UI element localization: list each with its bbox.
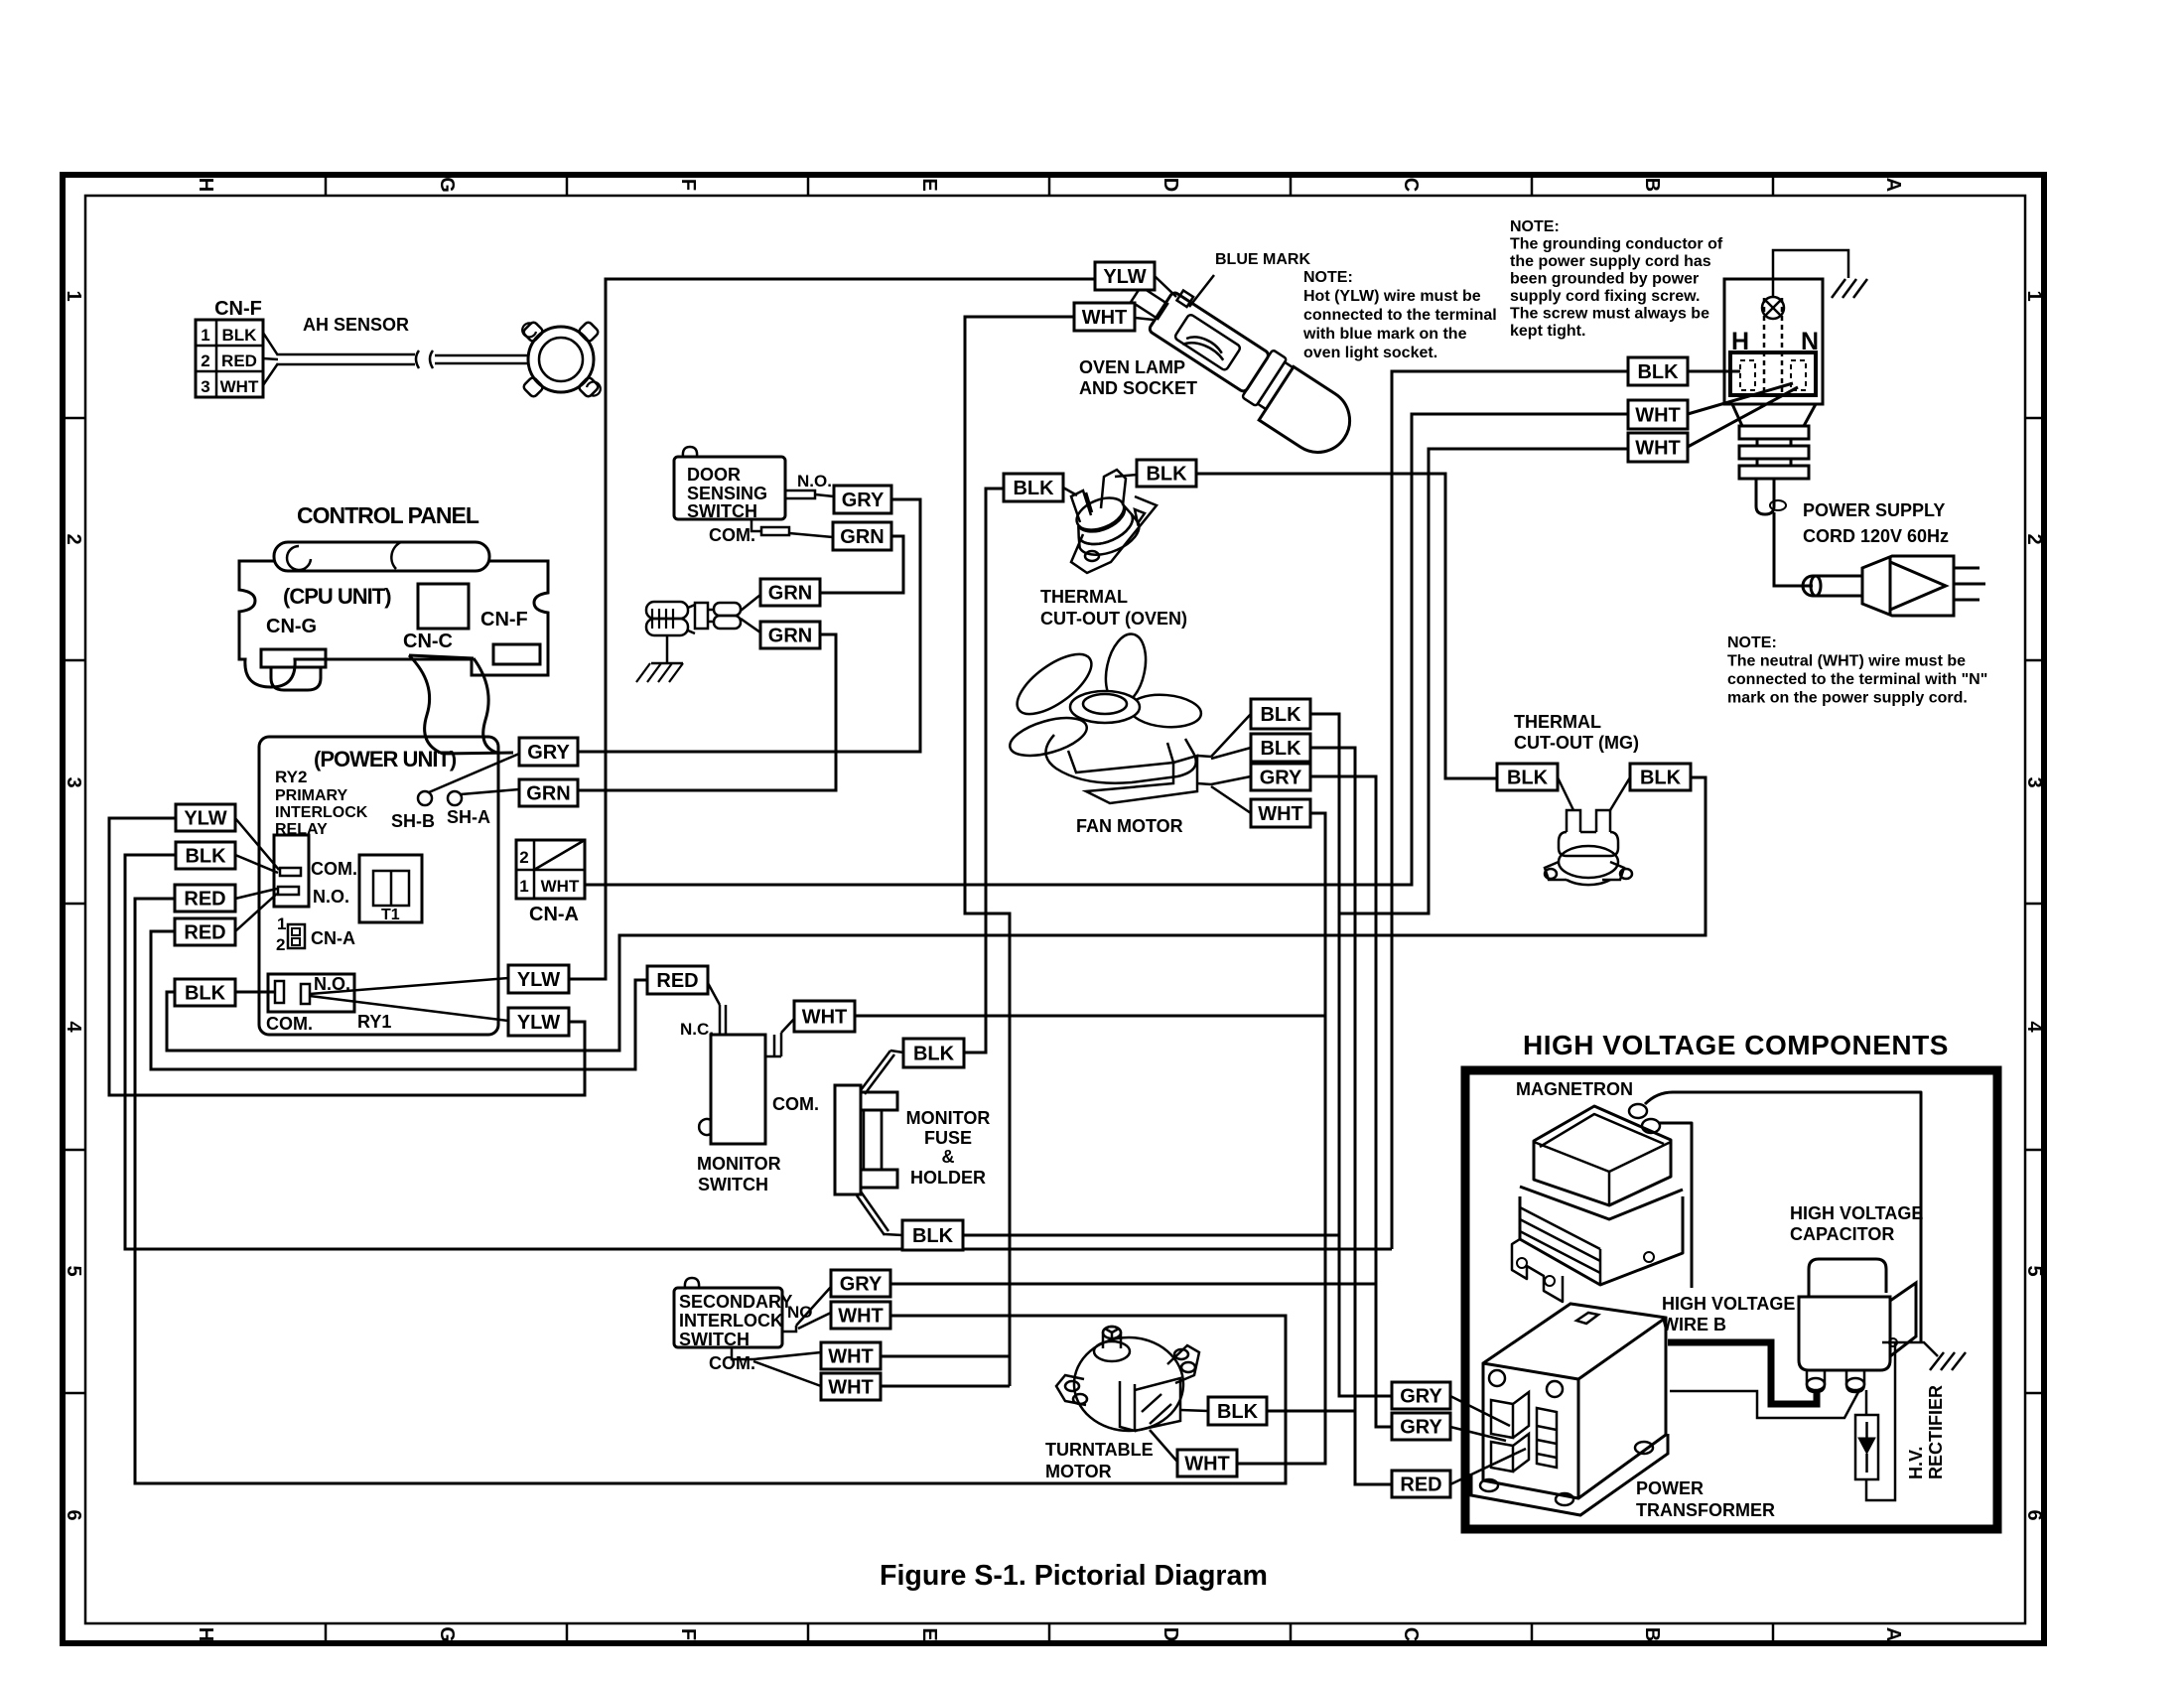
svg-text:BLK: BLK: [185, 846, 226, 868]
wire BLK3 left to thermal cutout MG BLK right: [167, 777, 1706, 1051]
secondary interlock NO stub: [782, 1326, 796, 1332]
connector CN-A (small, on power unit): [288, 924, 305, 948]
svg-text:CN-C: CN-C: [403, 631, 453, 652]
wire label box WHT: [1628, 433, 1688, 462]
wire label box YLW: [508, 965, 569, 993]
wires to BLK MG boxes: [1558, 777, 1573, 810]
wire SH-A to GRN: [461, 789, 519, 794]
svg-text:YLW: YLW: [184, 808, 226, 830]
ground (capacitor area): [1882, 1342, 1938, 1356]
transformer T1: [359, 855, 422, 922]
svg-text:BLK: BLK: [185, 983, 226, 1005]
svg-text:BLK: BLK: [1640, 768, 1682, 789]
wires rectifier: [1865, 1390, 1868, 1415]
wire label box BLK: [1628, 357, 1688, 385]
svg-text:CUT-OUT (OVEN): CUT-OUT (OVEN): [1040, 609, 1187, 629]
svg-text:H.V.: H.V.: [1906, 1447, 1926, 1479]
transformer mounting flange: [1471, 1434, 1668, 1515]
svg-text:FUSE: FUSE: [924, 1128, 972, 1148]
svg-text:GRY: GRY: [1400, 1386, 1442, 1408]
svg-text:CN-F: CN-F: [480, 609, 528, 631]
wire label box BLK: [903, 1039, 964, 1067]
svg-text:HIGH VOLTAGE COMPONENTS: HIGH VOLTAGE COMPONENTS: [1523, 1030, 1949, 1060]
door sensing switch body: [674, 457, 785, 519]
svg-text:YLW: YLW: [517, 1012, 560, 1034]
svg-text:The neutral (WHT) wire must be: The neutral (WHT) wire must be: [1727, 653, 1966, 670]
svg-text:2: 2: [519, 848, 528, 867]
svg-text:3: 3: [201, 377, 209, 396]
svg-text:1: 1: [2023, 290, 2045, 301]
wire label box RED: [647, 966, 708, 994]
svg-text:WHT: WHT: [541, 877, 580, 896]
svg-text:GRY: GRY: [1400, 1417, 1442, 1439]
svg-text:WHT: WHT: [1635, 438, 1681, 460]
svg-text:OVEN LAMP: OVEN LAMP: [1079, 357, 1185, 377]
svg-text:2: 2: [276, 935, 285, 954]
power supply cord terminal block: [1724, 279, 1823, 404]
svg-text:2: 2: [2023, 533, 2045, 544]
wire secondary GRY to fan GRY net: [890, 1283, 1376, 1286]
wire YLW: power unit YLW upper to oven lamp YLW box: [569, 279, 1095, 979]
svg-text:WHT: WHT: [1184, 1454, 1230, 1475]
svg-text:5: 5: [2023, 1265, 2045, 1276]
svg-text:INTERLOCK: INTERLOCK: [679, 1311, 783, 1331]
svg-text:DOOR: DOOR: [687, 465, 741, 485]
wire label box GRY: [1251, 764, 1310, 790]
svg-text:THERMAL: THERMAL: [1040, 587, 1128, 607]
svg-text:A: A: [1882, 178, 1904, 192]
wire label box WHT: [821, 1342, 881, 1369]
wire RED2 left to monitor switch RED: [151, 931, 647, 1069]
wire label box WHT: [794, 1001, 855, 1032]
svg-text:the power supply cord has: the power supply cord has: [1510, 253, 1711, 270]
wire fan BLK1 jog to power cord WHT lower: [1339, 449, 1628, 913]
high voltage capacitor: [1799, 1259, 1916, 1392]
svg-text:G: G: [436, 177, 458, 193]
svg-text:RED: RED: [184, 889, 225, 911]
svg-text:NO: NO: [787, 1303, 813, 1322]
wire RED left: long bottom run to secondary WHT NO: [135, 899, 1286, 1483]
border frame inner: [85, 196, 2025, 1623]
thermal cut-out (MG): [1545, 777, 1632, 885]
svg-text:SWITCH: SWITCH: [679, 1330, 750, 1349]
svg-text:RY1: RY1: [357, 1012, 391, 1032]
svg-text:WHT: WHT: [220, 377, 259, 396]
svg-text:D: D: [1160, 178, 1181, 192]
svg-text:AH SENSOR: AH SENSOR: [303, 315, 409, 335]
svg-text:POWER: POWER: [1636, 1478, 1704, 1498]
svg-text:HIGH VOLTAGE: HIGH VOLTAGE: [1662, 1294, 1795, 1314]
svg-text:H: H: [195, 178, 216, 192]
svg-text:BLK: BLK: [1260, 738, 1301, 760]
svg-text:COM.: COM.: [772, 1094, 819, 1114]
wire to ground (cord): [1773, 250, 1848, 297]
wire label box WHT: [1177, 1450, 1237, 1476]
wire label box BLK: [176, 842, 235, 869]
svg-text:2: 2: [63, 533, 84, 544]
svg-text:BLK: BLK: [222, 326, 258, 345]
ground lug terminals: [646, 602, 688, 619]
H.V. rectifier: [1855, 1415, 1878, 1479]
wire fan GRY down to transformer GRY2: [1310, 776, 1392, 1427]
svg-text:CN-F: CN-F: [214, 298, 262, 320]
wire door GRN to lug GRN box: [821, 536, 903, 593]
svg-text:CUT-OUT (MG): CUT-OUT (MG): [1514, 733, 1639, 753]
svg-text:RED: RED: [1400, 1474, 1441, 1496]
svg-text:WHT: WHT: [1258, 803, 1303, 825]
svg-text:N.O.: N.O.: [313, 887, 349, 907]
wire label box WHT: [1251, 799, 1310, 827]
magnetron: [1512, 1092, 1921, 1342]
wire fan BLK1 down to transformer GRY1: [1310, 714, 1392, 1396]
wire label box GRY: [834, 486, 891, 513]
svg-text:GRN: GRN: [526, 783, 570, 805]
connector CN-G: [261, 649, 326, 667]
wire label box WHT: [1628, 400, 1688, 429]
turntable motor: [1056, 1327, 1208, 1462]
svg-text:POWER SUPPLY: POWER SUPPLY: [1803, 500, 1945, 520]
wire H/N leads: [1688, 370, 1740, 373]
wire label box GRN: [760, 622, 820, 648]
indicator lamp on cord block: [1762, 297, 1784, 319]
svg-text:B: B: [1641, 1627, 1663, 1641]
svg-text:GRY: GRY: [527, 742, 570, 764]
svg-text:FAN MOTOR: FAN MOTOR: [1076, 816, 1183, 836]
wire label box YLW: [508, 1008, 569, 1036]
svg-text:C: C: [1400, 1627, 1422, 1641]
wire label box WHT: [1074, 303, 1135, 331]
high voltage wire B (thick): [1668, 1342, 1817, 1404]
svg-text:N.O.: N.O.: [797, 472, 832, 491]
wire cord to plug: [1774, 512, 1813, 586]
svg-text:NOTE:: NOTE:: [1510, 218, 1560, 235]
svg-text:COM.: COM.: [709, 525, 755, 545]
wire label box GRY: [519, 738, 578, 766]
wire capacitor case pin: [1889, 1338, 1897, 1346]
door switch N.O. stub: [785, 491, 815, 498]
svg-text:F: F: [677, 1628, 699, 1640]
ground symbol (left): [651, 635, 683, 663]
svg-text:RED: RED: [221, 351, 257, 370]
svg-text:F: F: [677, 179, 699, 191]
svg-text:YLW: YLW: [517, 969, 560, 991]
relay RY2 body: [274, 835, 309, 907]
wire label box YLW: [1095, 262, 1155, 290]
svg-text:BLK: BLK: [1260, 704, 1301, 726]
svg-text:(POWER UNIT): (POWER UNIT): [314, 747, 457, 772]
svg-text:RED: RED: [656, 970, 698, 992]
fan motor: [1006, 631, 1251, 813]
cord boot: [1756, 479, 1774, 514]
svg-text:TURNTABLE: TURNTABLE: [1045, 1440, 1154, 1460]
AH sensor ring: [528, 327, 594, 392]
svg-text:6: 6: [63, 1509, 84, 1520]
svg-text:SH-A: SH-A: [447, 807, 490, 827]
border frame outer: [63, 175, 2044, 1643]
svg-text:WHT: WHT: [828, 1377, 874, 1399]
svg-text:GRN: GRN: [768, 583, 812, 605]
svg-text:D: D: [1160, 1627, 1181, 1641]
svg-text:H: H: [195, 1627, 216, 1641]
svg-text:The grounding conductor of: The grounding conductor of: [1510, 236, 1723, 253]
svg-text:PRIMARY: PRIMARY: [275, 787, 348, 804]
wire label box WHT: [821, 1373, 881, 1400]
monitor fuse holder plate: [835, 1085, 861, 1194]
svg-text:BLK: BLK: [1217, 1401, 1259, 1423]
svg-text:E: E: [918, 178, 940, 191]
svg-text:RY2: RY2: [275, 768, 307, 786]
svg-text:NOTE:: NOTE:: [1303, 269, 1353, 286]
svg-text:WIRE B: WIRE B: [1662, 1315, 1726, 1334]
wire AH sensor cable: [278, 353, 415, 356]
svg-text:THERMAL: THERMAL: [1514, 712, 1601, 732]
svg-text:NOTE:: NOTE:: [1727, 634, 1777, 651]
svg-text:CN-A: CN-A: [529, 904, 579, 925]
svg-text:(CPU UNIT): (CPU UNIT): [283, 584, 391, 609]
svg-text:WHT: WHT: [1082, 307, 1128, 329]
ground symbol (cord): [1832, 279, 1845, 298]
secondary interlock COM stub: [732, 1347, 753, 1359]
svg-text:BLK: BLK: [1507, 768, 1549, 789]
svg-text:CN-G: CN-G: [266, 616, 317, 637]
svg-text:been grounded by power: been grounded by power: [1510, 271, 1699, 288]
svg-text:COM.: COM.: [266, 1014, 313, 1034]
SH-A terminal circle: [448, 791, 462, 805]
svg-text:RED: RED: [184, 922, 225, 944]
svg-text:COM.: COM.: [311, 859, 357, 879]
wire thermal-oven BLK right to thermal MG BLK left: [1196, 474, 1497, 778]
wire door GRY down to power unit GRY: [578, 499, 920, 752]
wire AH sensor cable fan-out: [263, 333, 278, 355]
wire YLW left loop: YLW box to power unit YLW lower: [109, 818, 585, 1095]
svg-text:C: C: [1400, 178, 1422, 192]
svg-text:GRY: GRY: [840, 1274, 883, 1296]
wire RY2 leads from left boxes: [235, 818, 279, 870]
wire WHT: secondary interlock COM WHT boxes to junction: [881, 1355, 1010, 1358]
fan motor body: [1045, 735, 1195, 783]
svg-text:with blue mark on the: with blue mark on the: [1302, 326, 1467, 343]
svg-text:TRANSFORMER: TRANSFORMER: [1636, 1500, 1775, 1520]
wires from GRY GRY RED boxes to transformer: [1450, 1396, 1510, 1426]
high voltage components box (thick): [1465, 1070, 1997, 1529]
svg-text:The screw must always be: The screw must always be: [1510, 306, 1709, 323]
svg-text:RELAY: RELAY: [275, 821, 328, 838]
IC chip rect on CPU board: [418, 584, 469, 629]
SH-B terminal circle: [418, 791, 432, 805]
wire label box BLK: [175, 979, 235, 1006]
svg-text:connected to the terminal: connected to the terminal: [1303, 307, 1497, 324]
svg-text:B: B: [1641, 178, 1663, 192]
svg-text:BLUE MARK: BLUE MARK: [1215, 251, 1310, 268]
wire label box BLK: [1004, 474, 1063, 501]
svg-text:COM.: COM.: [709, 1353, 755, 1373]
wire label box GRY: [1392, 1413, 1450, 1440]
svg-text:A: A: [1882, 1627, 1904, 1641]
wire label box BLK: [1251, 734, 1310, 762]
power transformer: [1450, 1304, 1668, 1515]
svg-text:6: 6: [2023, 1509, 2045, 1520]
svg-text:Figure S-1. Pictorial Diagram: Figure S-1. Pictorial Diagram: [880, 1560, 1268, 1592]
wire label box RED: [175, 885, 235, 912]
wire label box RED: [175, 918, 235, 945]
wire label box BLK: [1630, 764, 1691, 790]
svg-text:1: 1: [201, 326, 209, 345]
wire label box BLK: [1251, 699, 1310, 729]
svg-text:WHT: WHT: [802, 1007, 848, 1029]
thermal cut-out (oven): [1063, 470, 1157, 573]
svg-text:WHT: WHT: [838, 1306, 884, 1328]
wire label box BLK: [1497, 764, 1558, 790]
svg-text:4: 4: [2023, 1021, 2045, 1033]
wire RED to N.C. stub: [708, 983, 720, 1005]
svg-text:CN-A: CN-A: [311, 928, 355, 948]
svg-text:MONITOR: MONITOR: [697, 1154, 781, 1174]
secondary interlock switch body: [674, 1288, 782, 1347]
fuse body: [861, 1092, 897, 1110]
wire BLK left: BLK box to power cord BLK via bottom run: [125, 855, 1392, 1249]
svg-text:3: 3: [63, 776, 84, 787]
wire monitor fuse BLK lower into bundle: [963, 1234, 1339, 1237]
wire fan BLK2 down to transformer RED: [1310, 748, 1392, 1484]
svg-text:INTERLOCK: INTERLOCK: [275, 804, 368, 821]
svg-text:WHT: WHT: [1635, 405, 1681, 427]
svg-text:T1: T1: [381, 907, 400, 923]
svg-text:RECTIFIER: RECTIFIER: [1926, 1385, 1946, 1479]
wire label box RED: [1392, 1471, 1450, 1497]
connector CN-F table: [196, 320, 263, 397]
monitor switch body: [711, 1035, 765, 1144]
svg-text:N: N: [1801, 328, 1819, 355]
wire label box GRN: [833, 522, 891, 550]
svg-text:GRN: GRN: [840, 526, 884, 548]
svg-text:1: 1: [277, 914, 286, 933]
svg-text:GRY: GRY: [842, 490, 885, 511]
svg-text:mark on the power supply cord.: mark on the power supply cord.: [1727, 690, 1968, 707]
wire RY1 to YLW boxes (diagonals): [310, 978, 508, 994]
power unit board: [259, 737, 498, 1035]
wire label box GRY: [831, 1270, 890, 1297]
wire label box GRY: [1392, 1382, 1450, 1409]
svg-text:5: 5: [63, 1265, 84, 1276]
power plug: [1803, 556, 1985, 616]
svg-text:AND SOCKET: AND SOCKET: [1079, 378, 1197, 398]
wire thermal-oven BLK left to monitor fuse BLK: [964, 489, 1004, 1052]
svg-text:MOTOR: MOTOR: [1045, 1462, 1112, 1481]
svg-text:BLK: BLK: [1637, 361, 1679, 383]
wire WHT: oven lamp WHT down to secondary interlock COM WHT: [965, 317, 1074, 1386]
wire turntable BLK into bundle: [1267, 1410, 1355, 1413]
door switch COM stub: [751, 519, 761, 531]
wire label box BLK: [902, 1220, 963, 1250]
svg-text:N.O.: N.O.: [314, 974, 350, 994]
svg-text:oven light socket.: oven light socket.: [1303, 345, 1437, 361]
oven lamp and socket: [1115, 270, 1364, 465]
svg-text:Hot (YLW) wire must be: Hot (YLW) wire must be: [1303, 288, 1481, 305]
svg-text:HIGH VOLTAGE: HIGH VOLTAGE: [1790, 1203, 1923, 1223]
connector CN-A power unit output: [516, 840, 585, 899]
svg-text:2: 2: [201, 351, 209, 370]
wire label box YLW: [176, 804, 235, 831]
svg-text:YLW: YLW: [1103, 266, 1146, 288]
svg-text:CONTROL PANEL: CONTROL PANEL: [297, 502, 479, 528]
svg-text:GRY: GRY: [1260, 768, 1302, 789]
wire lug GRN2 box to power unit GRN: [578, 634, 836, 790]
svg-text:SECONDARY: SECONDARY: [679, 1292, 792, 1312]
svg-text:N.C.: N.C.: [680, 1020, 714, 1039]
wire transformer to capacitor (thin): [1670, 1391, 1858, 1418]
svg-text:kept tight.: kept tight.: [1510, 323, 1585, 340]
svg-text:SWITCH: SWITCH: [698, 1175, 768, 1194]
svg-text:&: &: [942, 1147, 955, 1167]
wire SH-B to GRY: [429, 754, 519, 792]
svg-text:MAGNETRON: MAGNETRON: [1516, 1079, 1633, 1099]
wire monitor WHT to fan WHT / turntable WHT: [855, 1015, 1325, 1018]
struts to BLK boxes: [861, 1051, 890, 1090]
wire label box GRN: [519, 779, 578, 806]
wire COM to WHT box: [781, 1019, 794, 1033]
svg-text:E: E: [918, 1627, 940, 1640]
svg-text:CAPACITOR: CAPACITOR: [1790, 1224, 1894, 1244]
svg-text:BLK: BLK: [1013, 478, 1054, 499]
svg-text:SENSING: SENSING: [687, 484, 767, 503]
svg-text:1: 1: [63, 290, 84, 301]
transformer terminal tabs: [1576, 1313, 1598, 1324]
svg-text:SH-B: SH-B: [391, 811, 435, 831]
wire label box GRN: [760, 579, 820, 606]
svg-text:connected to the terminal with: connected to the terminal with "N": [1727, 671, 1987, 688]
svg-text:BLK: BLK: [1146, 464, 1187, 486]
svg-text:WHT: WHT: [828, 1346, 874, 1368]
cord strain relief fins: [1732, 404, 1816, 426]
wire BLK left box to RY1: [235, 991, 275, 994]
svg-text:supply cord fixing screw.: supply cord fixing screw.: [1510, 288, 1700, 305]
ribbon cable CN-C: [409, 655, 443, 754]
relay RY1 body: [268, 974, 354, 1012]
wire label box BLK: [1208, 1397, 1267, 1425]
svg-text:BLK: BLK: [913, 1044, 955, 1065]
wire CN-A WHT to power cord WHT upper: [585, 414, 1628, 885]
svg-text:HOLDER: HOLDER: [910, 1168, 986, 1188]
monitor switch N.C. stub: [719, 1005, 722, 1035]
svg-text:BLK: BLK: [912, 1225, 954, 1247]
svg-text:G: G: [436, 1626, 458, 1642]
svg-text:4: 4: [63, 1021, 84, 1033]
svg-text:CORD 120V 60Hz: CORD 120V 60Hz: [1803, 526, 1949, 546]
svg-text:1: 1: [519, 877, 528, 896]
wire label box BLK: [1137, 460, 1196, 487]
svg-text:SWITCH: SWITCH: [687, 501, 757, 521]
svg-text:3: 3: [2023, 776, 2045, 787]
scroll bar on top of CPU board: [274, 542, 489, 571]
connector CN-F rect on CPU board: [493, 644, 540, 664]
wires fan to boxes: [1211, 714, 1251, 757]
wire lugs to GRN boxes: [741, 595, 760, 632]
svg-text:MONITOR: MONITOR: [906, 1108, 991, 1128]
monitor switch COM stub: [765, 1033, 781, 1056]
svg-text:H: H: [1731, 328, 1749, 355]
control panel CPU board outline: [239, 561, 548, 687]
svg-text:GRN: GRN: [768, 626, 812, 647]
wire label box WHT: [831, 1302, 890, 1329]
